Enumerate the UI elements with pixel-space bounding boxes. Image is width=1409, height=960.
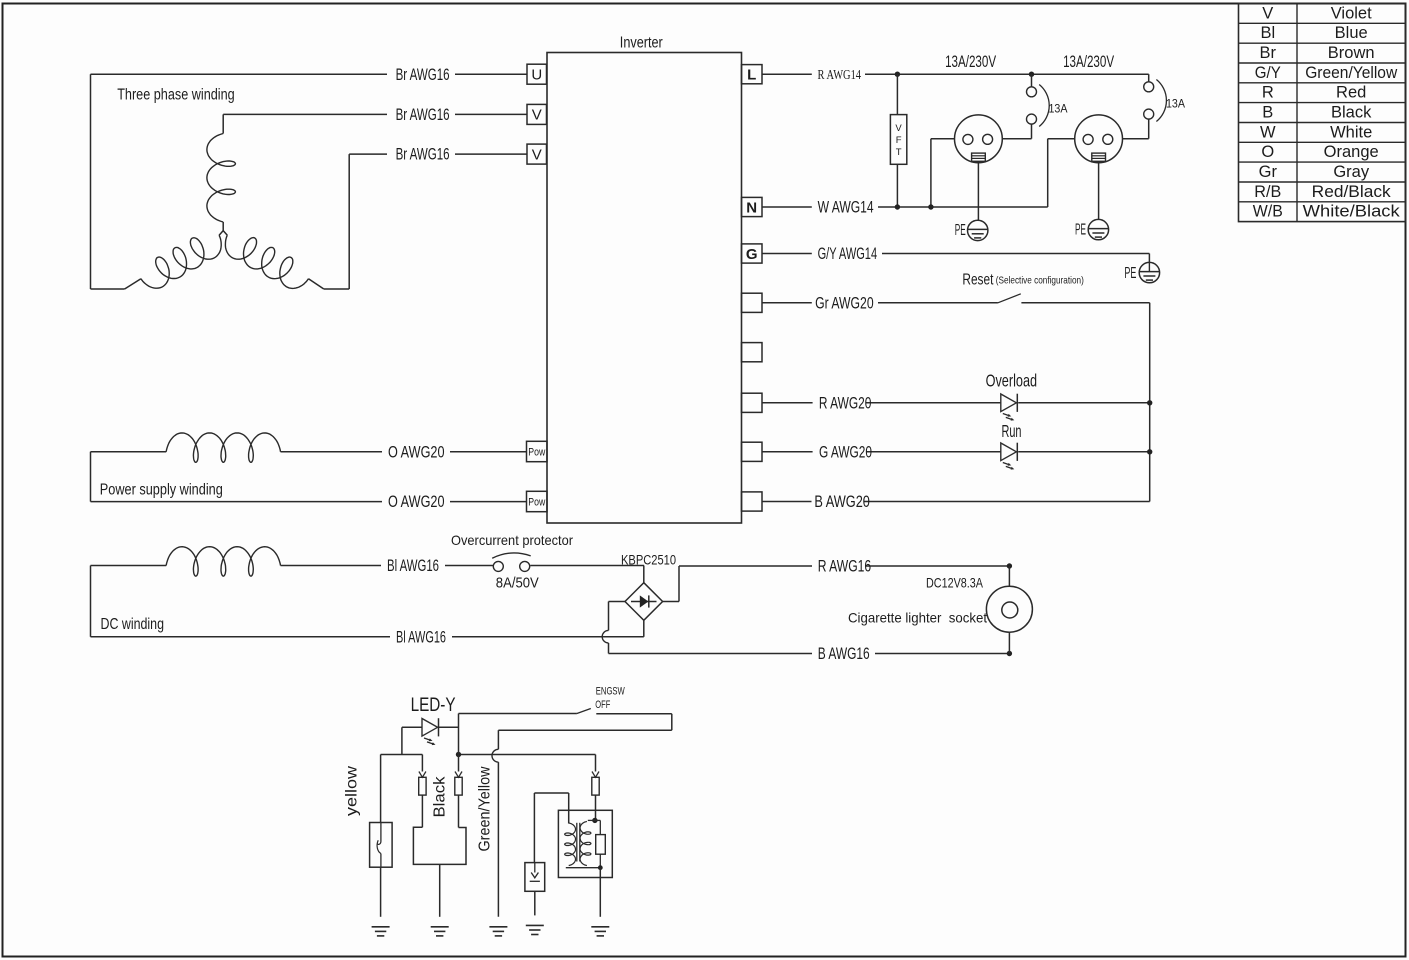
overcurrent protector F1 [493,561,503,571]
inverter terminal nc [742,343,763,362]
svg-text:Orange: Orange [1324,143,1379,161]
inverter terminal nc [742,442,763,461]
svg-text:KBPC2510: KBPC2510 [621,553,676,568]
svg-text:(Selective configuration): (Selective configuration) [996,274,1084,286]
bridge rectifier D1 diode [631,601,657,603]
outlet X1 left pin wire [931,138,955,140]
wire LED cathode drop [458,714,460,755]
wire bridge positive out [663,601,679,603]
wire Gr AWG20 [762,302,812,304]
junction engine bus [456,752,461,757]
VFT varistor wire top [896,74,898,114]
outlet X1 earth stem [977,161,979,220]
svg-text:R AWG20: R AWG20 [819,394,872,412]
svg-text:Black: Black [1331,103,1372,121]
svg-text:Br AWG16: Br AWG16 [396,106,450,124]
power winding coil L1 [166,433,280,462]
svg-text:Reset: Reset [962,271,994,288]
oil level switch S2 body [370,823,393,868]
wire ENGSW feed [459,713,577,715]
inverter terminal V [527,104,547,124]
ignition coil secondary top bar [588,819,601,821]
reset switch SW3 blade [998,294,1021,303]
svg-text:Gr AWG20: Gr AWG20 [815,294,874,312]
svg-text:O AWG20: O AWG20 [388,443,445,461]
svg-text:L: L [747,67,756,84]
svg-text:Br AWG16: Br AWG16 [396,66,450,84]
winding W1 right rail wire [309,279,324,289]
wire yellow to ground [380,867,382,917]
winding W1 phase-B coil [207,134,236,223]
LED Overload [1001,394,1017,412]
wire spark plug feed [533,793,535,863]
svg-text:Green/Yellow: Green/Yellow [1305,64,1397,82]
outlet X1 body [955,115,1003,163]
junction G AWG20/bus [1147,449,1152,454]
svg-text:PE: PE [1075,221,1086,238]
wire connector2 branch [458,755,460,772]
svg-text:Pow: Pow [528,447,545,459]
svg-text:13A/230V: 13A/230V [945,53,996,71]
svg-text:13A/230V: 13A/230V [1063,53,1114,71]
svg-text:8A/50V: 8A/50V [496,575,539,592]
connector 2 [455,772,462,778]
svg-text:V: V [1262,4,1273,22]
LED Run [1001,443,1017,461]
wire socket feed bottom [1008,632,1010,653]
svg-text:Gr: Gr [1259,163,1278,181]
svg-text:V: V [532,107,542,124]
outlet X1 right pin wire [1002,138,1031,140]
wire Green/Yellow vertical [497,730,499,749]
wire Bl AWG16 top [91,565,167,567]
wire socket feed top [1008,566,1010,586]
wire G (G/Y AWG14) [762,253,812,255]
outlet X2 earth stem [1098,161,1100,219]
ignition coil core [576,823,578,862]
wire L (R AWG14) [762,73,812,75]
outlet X2 right pin wire [1123,138,1149,140]
resistor R2 body [596,835,606,855]
junction R AWG20/bus [1147,400,1152,405]
VFT varistor body [890,115,906,165]
inverter terminal V [527,144,547,164]
svg-text:Br: Br [1260,44,1277,62]
wire Bl AWG16 bottom [91,636,391,638]
bridge rectifier D1 body [625,583,663,621]
svg-text:Gray: Gray [1333,163,1370,181]
svg-text:Power supply winding: Power supply winding [100,482,223,499]
wire V phase (Br AWG16) [223,113,387,115]
ground spark plug [534,924,536,926]
wire G AWG20 [762,451,813,453]
inverter terminal nc [742,293,763,312]
DC winding coil L2 [166,547,280,576]
ground CDI [439,926,441,928]
wire connector2 lower [458,795,460,827]
outlet X1 PE symbol [968,220,988,240]
svg-text:Brown: Brown [1328,44,1375,62]
svg-text:N: N [746,199,757,216]
svg-text:O: O [1261,143,1274,161]
cigarette lighter socket J1 [986,586,1032,632]
ignition coil primary winding [565,823,576,866]
svg-text:Inverter: Inverter [620,35,663,52]
svg-text:G: G [746,246,758,263]
svg-text:White/Black: White/Black [1303,203,1401,221]
resistor R2 drop [599,820,601,834]
svg-text:White: White [1330,123,1372,141]
wire ENGSW return [596,713,672,715]
svg-text:PE: PE [955,222,966,239]
svg-text:F: F [896,135,902,146]
svg-text:OFF: OFF [595,699,610,711]
wire black branch [421,755,423,772]
ground ignition coil [599,926,601,928]
inverter terminal U [527,64,547,84]
svg-text:R: R [1262,84,1274,102]
inverter terminal L [742,65,763,84]
svg-text:DC winding: DC winding [101,616,165,633]
svg-text:DC12V8.3A: DC12V8.3A [926,575,984,591]
wire N (W AWG14) [762,206,812,208]
svg-text:ENGSW: ENGSW [596,685,625,697]
svg-text:Red/Black: Red/Black [1312,183,1392,201]
winding W1 phase-C coil [225,235,308,288]
svg-text:B AWG20: B AWG20 [814,493,870,511]
svg-text:Cigarette lighter socket: Cigarette lighter socket [848,609,987,625]
svg-text:Bl AWG16: Bl AWG16 [387,557,439,575]
inverter terminal nc [742,393,763,412]
inverter terminal N [742,197,763,216]
engine stop switch ENGSW blade [577,709,591,714]
wire black branch lower [421,795,423,827]
wire U phase (Br AWG16) [91,73,388,75]
ignition coil primary wire [568,793,570,824]
svg-text:PE: PE [1124,265,1136,282]
wire engine bus left [381,754,423,756]
connector black [419,772,426,778]
svg-text:V: V [895,123,902,134]
svg-text:Overload: Overload [986,370,1038,390]
svg-text:G/Y AWG14: G/Y AWG14 [818,245,878,263]
svg-text:Bl AWG16: Bl AWG16 [396,628,446,646]
wire bridge AC input bottom [643,620,645,637]
ignition coil T1 box [558,810,612,877]
outlet X2 PE symbol [1088,219,1108,239]
junction coil ground [598,865,603,870]
svg-text:LED-Y: LED-Y [411,695,456,716]
svg-text:B: B [1262,103,1273,121]
wire CDI to ground [439,864,441,916]
wire B AWG16 [609,653,813,655]
svg-text:W/B: W/B [1253,203,1283,221]
spark plug P1 gap [534,863,536,873]
svg-text:T: T [896,147,902,158]
inverter U1 body [547,53,742,524]
ignition coil primary link [534,792,568,794]
svg-text:G AWG20: G AWG20 [819,443,872,461]
wire engine bus right [459,754,596,756]
inverter terminal Pow1 [527,441,548,461]
PE symbol on G/Y [1148,262,1150,271]
svg-text:Run: Run [1002,421,1022,441]
ignition coil foot bar [566,867,601,869]
winding W1 phase-A coil [141,235,221,288]
svg-text:V: V [532,146,542,163]
wire ignition feed [595,755,597,772]
resistor R2 lower [599,854,601,868]
ground yellow branch [380,926,382,928]
wire LED-Y anode [402,726,422,728]
svg-text:B AWG16: B AWG16 [818,645,870,663]
power winding left rail wire [90,452,92,502]
junction ignition coil + [592,818,597,823]
CDI unit body [413,827,466,864]
winding W1 star point node [219,231,227,236]
svg-text:13A: 13A [1166,97,1185,111]
wire ignition lower [595,795,597,820]
wire yellow branch [380,755,382,823]
inverter terminal nc [742,492,763,511]
junction N/VFT [895,204,900,209]
wire spark plug to ground [534,891,536,915]
switch SW2 13A [1148,74,1150,82]
outlet X2 body [1075,115,1123,163]
wire bridge AC input [643,566,645,583]
svg-text:U: U [531,66,542,83]
junction R AWG16 / socket [1007,563,1012,568]
spark plug P1 body [525,863,545,892]
svg-text:Three phase winding: Three phase winding [117,86,235,103]
junction B AWG16 / socket [1007,651,1012,656]
ignition coil secondary winding [580,822,591,866]
wire coil to ground [599,868,601,917]
winding W1 phase-B top wire [222,114,224,133]
oil level switch S2 contact [380,823,382,842]
junction N/outlet X1 [928,204,933,209]
svg-text:yellow: yellow [344,765,361,816]
wire R AWG20 [762,402,813,404]
wire Gr AWG20 after switch [1021,302,1149,304]
wire color legend table [1239,4,1406,222]
svg-text:Blue: Blue [1335,24,1368,42]
outlet X2 left pin wire [1048,138,1075,140]
wire W phase (Br AWG16) [349,153,387,155]
DC winding left rail wire [90,566,92,637]
wire right bus vertical [1149,303,1151,502]
ground green/yellow [497,926,499,928]
svg-text:Pow: Pow [528,497,545,509]
svg-text:R/B: R/B [1254,183,1281,201]
svg-text:Red: Red [1336,84,1366,102]
svg-text:Overcurrent protector: Overcurrent protector [451,532,573,548]
wire LED-Y cathode [439,726,459,728]
svg-text:13A: 13A [1049,102,1068,116]
svg-text:Bl: Bl [1260,24,1275,42]
inverter terminal Pow2 [527,491,548,511]
svg-text:R AWG16: R AWG16 [818,558,872,576]
svg-text:Violet: Violet [1331,4,1372,22]
VFT varistor wire bottom [896,164,898,207]
inverter terminal G [742,244,763,263]
svg-text:W: W [1260,123,1276,141]
wire B AWG20 [762,501,812,503]
svg-text:Green/Yellow: Green/Yellow [477,766,494,852]
svg-text:R AWG14: R AWG14 [818,67,862,82]
svg-text:W AWG14: W AWG14 [818,199,874,217]
connector ignition [592,772,599,778]
wire bridge negative out [609,601,626,603]
wire R AWG16 [679,565,812,567]
LED-Y diode D2 [422,719,438,737]
wire O AWG20 top [91,451,167,453]
svg-text:O AWG20: O AWG20 [388,493,445,511]
switch SW1 13A [1031,74,1033,87]
svg-text:Br AWG16: Br AWG16 [396,146,450,164]
svg-text:G/Y: G/Y [1255,64,1281,82]
junction L/VFT [895,72,900,77]
wire O AWG20 bottom [91,501,383,503]
junction L/switch1 [1029,72,1034,77]
svg-text:Black: Black [432,776,449,817]
winding W1 left rail wire [90,74,92,289]
